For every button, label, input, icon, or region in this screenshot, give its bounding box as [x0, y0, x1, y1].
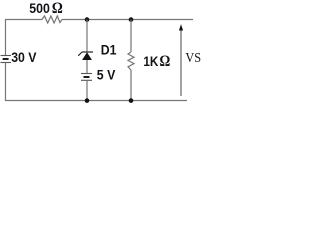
wire middle branch lower [86, 80, 88, 101]
node junction dot bottom middle [85, 98, 90, 103]
resistor 500 ohm zigzag [42, 16, 62, 23]
diode D1 zener cathode bar [78, 52, 93, 56]
node junction dot top right branch [129, 17, 134, 22]
wire bottom horizontal [5, 100, 187, 102]
voltage arrow VS head [179, 24, 183, 30]
wire left vertical (bottom half) [5, 63, 7, 102]
voltage arrow VS shaft [180, 30, 182, 96]
label 5 V [97, 67, 116, 83]
battery V1 30V plate long top [1, 55, 12, 57]
svg-text:5 V: 5 V [97, 67, 116, 83]
svg-text:VS: VS [185, 49, 201, 65]
svg-text:500 Ω: 500 Ω [29, 0, 63, 17]
label 1K Ohm [143, 53, 170, 70]
label D1 [101, 42, 117, 58]
wire 1k branch upper [130, 20, 132, 53]
wire left vertical (top half) [5, 20, 7, 56]
wire middle branch upper [86, 20, 88, 53]
node junction dot top middle [85, 17, 90, 22]
battery V1 30V plate long bottom [1, 62, 12, 64]
battery V2 5V plate short thick [84, 76, 90, 78]
wire top horizontal (left of resistor) [5, 19, 42, 21]
label 500 Ohm [29, 0, 63, 17]
resistor 1k ohm zigzag [128, 52, 134, 70]
battery V1 30V plate short thick [3, 58, 9, 60]
battery V2 5V plate long top [81, 73, 92, 75]
label 30 V [11, 49, 37, 65]
wire 1k branch lower [130, 70, 132, 101]
wire middle branch between diode and battery [86, 60, 88, 74]
label VS [185, 49, 201, 65]
node junction dot bottom right branch [129, 98, 134, 103]
svg-text:30 V: 30 V [11, 49, 37, 65]
wire top horizontal (right of resistor) [62, 19, 193, 21]
battery V2 5V plate long bottom [81, 79, 92, 81]
diode D1 triangle [82, 52, 92, 60]
svg-text:1KΩ: 1KΩ [143, 53, 170, 70]
svg-text:D1: D1 [101, 42, 117, 58]
